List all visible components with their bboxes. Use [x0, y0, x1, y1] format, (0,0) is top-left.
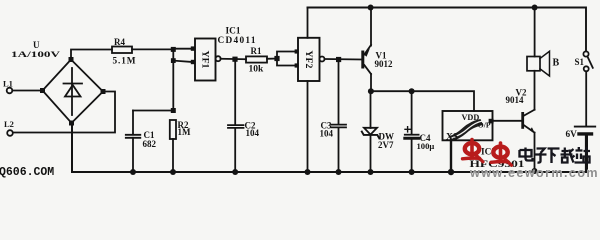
svg-text:9012: 9012: [375, 59, 394, 69]
wire YF2 top pin to rail: [307, 8, 309, 38]
svg-text:100μ: 100μ: [417, 141, 435, 151]
IC2 HFC9301 box: [443, 111, 493, 140]
svg-text:682: 682: [143, 139, 157, 149]
wire R4 to node A: [132, 48, 173, 50]
wire YF1 input 2: [173, 61, 192, 62]
node bridge bottom vertex: [69, 121, 74, 126]
watermark char dian: [520, 148, 533, 161]
node rail C4: [409, 169, 415, 175]
gate YF1 (IC1a): [195, 39, 216, 81]
node bridge top vertex: [69, 57, 74, 62]
svg-text:R1: R1: [251, 46, 262, 56]
node A junction after R4: [171, 47, 176, 52]
svg-text:CD4011: CD4011: [218, 36, 256, 46]
wire YF2 bottom pin to ground rail: [307, 81, 309, 172]
svg-text:L1: L1: [3, 79, 13, 89]
pin IC2 O/P: [489, 119, 494, 124]
bridge rectifier U diamond: [43, 60, 104, 124]
svg-text:www.eeworm.com: www.eeworm.com: [469, 166, 599, 179]
node C1/R2 junction: [171, 108, 176, 113]
bubble YF2 output: [320, 57, 325, 62]
svg-text:6V: 6V: [566, 130, 578, 140]
node rail V2 emitter: [532, 168, 538, 174]
svg-text:S1: S1: [575, 57, 585, 67]
node rail C3: [336, 169, 342, 175]
svg-text:10k: 10k: [249, 65, 265, 75]
pin pad YF2 input 1: [295, 49, 299, 53]
svg-text:1M: 1M: [178, 127, 192, 137]
capacitor C1: [126, 111, 141, 173]
bubble YF1 output: [216, 56, 221, 61]
node mid rail C4: [409, 88, 415, 94]
zener diode DW 2V7: [362, 91, 379, 172]
node mid rail DW: [368, 88, 374, 94]
svg-text:104: 104: [320, 129, 334, 139]
wire top rail: [308, 8, 587, 52]
wire L1 to bridge left: [13, 90, 43, 92]
node C3 junction: [336, 57, 341, 62]
svg-text:YF2: YF2: [303, 50, 314, 68]
wire mid rail (V1 collector to IC2 VDD): [371, 91, 474, 111]
svg-text:VDD: VDD: [462, 113, 480, 122]
wire junction to C1: [133, 110, 173, 112]
svg-text:5.1M: 5.1M: [113, 57, 136, 67]
svg-text:Q606.COM: Q606.COM: [0, 166, 54, 179]
wire vertical node A down: [172, 49, 174, 110]
wire L2 to bridge right: [14, 92, 116, 133]
capacitor C3: [332, 59, 347, 172]
node B junction second input: [171, 58, 176, 63]
resistor R1: [246, 56, 267, 62]
node rail YF2: [305, 169, 311, 175]
watermark bug char 1: [463, 140, 484, 162]
node rail DW: [368, 169, 374, 175]
wire bottom ground rail: [72, 123, 587, 172]
wire IC2 bottom pin to ground: [450, 140, 452, 172]
watermark char zi: [535, 149, 547, 163]
node rail C1: [130, 169, 136, 175]
svg-text:L2: L2: [4, 119, 14, 129]
node top rail speaker: [532, 5, 538, 11]
wire IC2 O/P to V2 base: [493, 120, 522, 122]
diode inside bridge: [64, 68, 83, 115]
watermark bug char 2: [491, 143, 512, 165]
battery 6V: [575, 127, 595, 172]
wire YF2 out to V1 base: [325, 58, 362, 61]
transistor V1 9012: [361, 8, 371, 92]
svg-text:IC1: IC1: [226, 27, 241, 37]
pin pad YF1 input 2: [191, 60, 195, 64]
pin pad YF2 input 2: [295, 63, 299, 67]
node rail C2: [232, 169, 238, 175]
terminal L1: [7, 88, 13, 94]
gate YF2 (IC1b): [298, 38, 320, 81]
svg-text:1A/100V: 1A/100V: [11, 49, 61, 59]
node bridge right vertex: [101, 89, 106, 94]
svg-text:9014: 9014: [506, 95, 525, 105]
capacitor C2: [228, 59, 244, 172]
wire YF2 input tie: [277, 52, 297, 66]
watermark char zhan: [575, 147, 591, 163]
node rail IC2: [448, 169, 454, 175]
resistor R2: [170, 120, 176, 172]
terminal L2: [7, 130, 13, 136]
pin pad YF1 input 1: [191, 46, 195, 50]
watermark char xia: [548, 149, 560, 164]
node bridge left vertex: [40, 88, 45, 93]
svg-text:2V7: 2V7: [378, 140, 394, 150]
speaker B: [527, 8, 550, 110]
resistor R4: [112, 47, 132, 54]
IC2 blob highlight: [452, 121, 483, 138]
svg-text:XS: XS: [446, 132, 458, 142]
wire YF1 input 1: [173, 48, 192, 50]
svg-text:R4: R4: [114, 37, 125, 47]
node rail R2: [170, 169, 176, 175]
transistor V2 9014: [521, 71, 535, 172]
wire R1 to YF2 inputs: [267, 58, 277, 60]
svg-text:104: 104: [246, 128, 260, 138]
IC2 chip blob: [449, 119, 484, 141]
node C2 junction: [232, 57, 237, 62]
svg-text:B: B: [553, 58, 560, 69]
wire YF1 out to R1: [221, 58, 246, 60]
node YF2 input junction: [274, 56, 279, 61]
capacitor C4 100u electrolytic: [405, 91, 419, 172]
svg-text:YF1: YF1: [200, 51, 211, 69]
svg-text:O/P: O/P: [478, 121, 491, 130]
switch S1: [583, 51, 592, 125]
watermark char zai: [561, 148, 575, 163]
node top rail V1 emitter: [368, 5, 374, 11]
wire bridge top to R4: [71, 50, 112, 60]
